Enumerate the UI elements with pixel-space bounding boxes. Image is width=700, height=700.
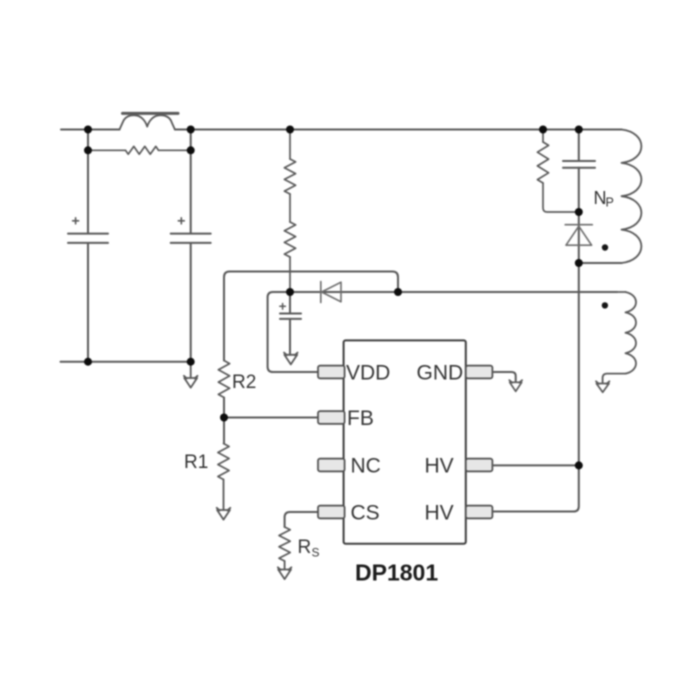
- svg-text:S: S: [312, 546, 320, 560]
- pin NC: [318, 459, 345, 472]
- wire AC bus left segment: [61, 129, 120, 131]
- svg-text:CS: CS: [351, 501, 380, 524]
- resistor snubber: [537, 130, 578, 213]
- capacitor snubber: [563, 130, 595, 213]
- wire HV upper pin to bus: [492, 464, 578, 466]
- wire left branch x=88: [87, 130, 89, 362]
- wire CS to Rs: [285, 512, 318, 527]
- ground (secondary): [596, 381, 609, 392]
- capacitor VDD (+): [280, 292, 301, 355]
- resistor startup lower: [284, 194, 295, 292]
- phase dot secondary: [602, 302, 608, 308]
- pin HV lower: [466, 506, 493, 519]
- wire VDD rail with drop to VDD pin: [268, 292, 617, 372]
- diode D2 auxiliary: [321, 282, 341, 303]
- wire right branch x=190.7: [190, 130, 192, 362]
- resistor R2: [218, 361, 229, 398]
- ground (left return): [184, 362, 198, 388]
- resistor damping across choke: [88, 146, 191, 154]
- svg-text:FB: FB: [347, 407, 374, 430]
- svg-text:NC: NC: [351, 454, 381, 477]
- wire bottom return: [61, 361, 191, 363]
- wire Np bottom to clamp node: [579, 262, 622, 264]
- wire R2-top to diode anode: [224, 272, 398, 361]
- transformer secondary winding: [603, 292, 636, 383]
- resistor startup upper: [284, 130, 295, 195]
- ground (Rs): [278, 561, 292, 579]
- resistor R1: [218, 444, 229, 480]
- svg-text:VDD: VDD: [346, 361, 390, 384]
- phase dot primary: [602, 244, 608, 250]
- pin FB: [318, 411, 345, 424]
- pin GND: [466, 366, 493, 379]
- wire FB: [224, 417, 318, 419]
- transformer primary Np winding: [622, 130, 642, 264]
- wire GND pin to ground: [492, 372, 515, 382]
- diode D1 clamp: [565, 212, 592, 263]
- svg-text:HV: HV: [425, 454, 454, 477]
- wire HV bus vertical: [492, 263, 578, 512]
- svg-text:DP1801: DP1801: [355, 560, 438, 586]
- ground (VDD capacitor): [284, 353, 298, 365]
- svg-text:R1: R1: [184, 452, 208, 473]
- svg-text:P: P: [606, 196, 614, 210]
- svg-text:HV: HV: [425, 501, 454, 524]
- svg-text:R2: R2: [232, 372, 256, 393]
- capacitor bulk C1 (+): [68, 218, 108, 243]
- pin HV upper: [466, 459, 493, 472]
- wire AC bus main segment: [175, 129, 622, 131]
- svg-text:R: R: [298, 537, 312, 558]
- pin CS: [318, 506, 345, 519]
- svg-text:GND: GND: [417, 361, 464, 384]
- resistor Rs: [279, 527, 290, 561]
- capacitor bulk C2 (+): [171, 218, 211, 243]
- IC U1 DP1801 body: [344, 340, 466, 543]
- ground (GND pin): [509, 380, 522, 391]
- common-mode choke L1: [120, 113, 179, 129]
- ground (R1): [217, 480, 231, 520]
- pin VDD: [318, 366, 345, 379]
- wire R2 to R1 through FB node: [223, 398, 225, 444]
